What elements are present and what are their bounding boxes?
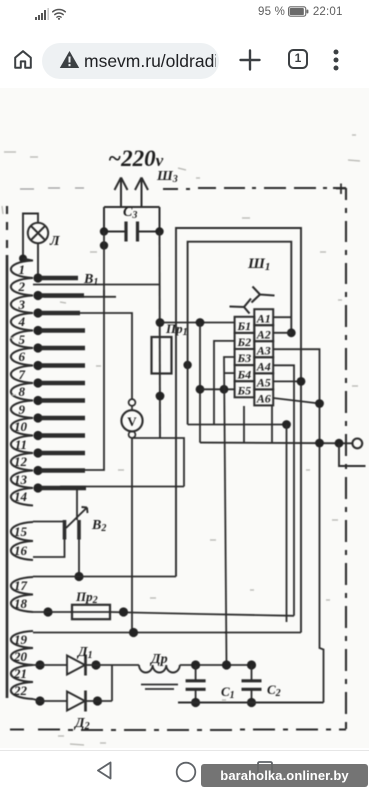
- wire tap13 drop to switch V2: [76, 487, 78, 521]
- voltmeter V top terminal: [129, 399, 136, 406]
- node C3 right: [155, 227, 163, 235]
- tap 13 terminal dot and lead: [33, 483, 42, 492]
- lamp L: [28, 223, 48, 243]
- node tap20: [35, 660, 44, 669]
- wire diode outputs join: [111, 665, 113, 701]
- svg-text:14: 14: [14, 489, 28, 504]
- transformer T winding loops 19-22: [11, 631, 33, 699]
- wire lamp bottom: [37, 243, 39, 277]
- svg-text:Д1: Д1: [76, 645, 93, 661]
- wire pin B1 to fuse line: [160, 322, 235, 324]
- svg-text:9: 9: [19, 402, 26, 417]
- wire voltmeter bottom junction: [132, 438, 160, 633]
- node winding top: [19, 255, 27, 263]
- svg-text:Б5: Б5: [236, 383, 251, 397]
- wire pin A1: [273, 316, 291, 318]
- wire voltmeter to tap13 line: [160, 438, 184, 487]
- wire lamp top bracket: [23, 214, 38, 259]
- switch V2 contacts: [63, 520, 67, 540]
- tap 12 terminal dot and lead: [33, 466, 42, 475]
- node voltmeter line to row19: [129, 628, 138, 637]
- svg-text:С2: С2: [267, 682, 281, 699]
- node fuse top: [156, 318, 165, 327]
- tap 2 terminal dot and lead: [33, 291, 42, 300]
- svg-text:Ш1: Ш1: [247, 256, 270, 273]
- wire bus W1 around connector: [176, 228, 301, 633]
- tap 5 terminal dot and lead: [33, 343, 42, 352]
- svg-text:4: 4: [18, 314, 26, 329]
- svg-text:~220v: ~220v: [108, 146, 164, 171]
- nav back triangle: [94, 760, 114, 781]
- node fuse Pr2 out: [119, 607, 128, 616]
- svg-text:1: 1: [19, 262, 26, 277]
- home icon: [13, 49, 33, 70]
- svg-text:8: 8: [19, 384, 26, 399]
- diode D1: [67, 656, 85, 675]
- warning triangle icon: [59, 50, 80, 69]
- switch V1 wire tap2 long: [33, 284, 160, 286]
- connector pin box А5: [254, 373, 273, 389]
- dash border corner mark: [336, 184, 346, 195]
- node tap18: [43, 607, 52, 616]
- svg-text:22: 22: [13, 683, 28, 698]
- wire pin A5 to bus W1: [273, 380, 301, 382]
- wire pin B3 down to rectifier rail: [224, 357, 235, 665]
- fuse Pr1: [152, 337, 172, 374]
- node tap22: [35, 696, 44, 705]
- wire tap19 row: [33, 632, 301, 634]
- node B5 junction: [196, 385, 205, 394]
- svg-text:А1: А1: [256, 311, 271, 325]
- node C1 top: [191, 660, 200, 669]
- wire pin A4 down to bus424: [273, 365, 294, 616]
- wire plus rail: [180, 664, 256, 666]
- signal bars icon: [35, 8, 50, 20]
- svg-text:А4: А4: [256, 359, 271, 373]
- node on W2 vertical: [183, 361, 191, 369]
- svg-text:5: 5: [19, 332, 26, 347]
- node diode D2 out: [93, 696, 102, 705]
- tap 9 terminal dot and lead: [33, 413, 42, 422]
- svg-text:6: 6: [19, 349, 26, 364]
- wire tap13 extension: [60, 486, 184, 488]
- wire pin B5: [200, 388, 235, 390]
- wire switch V2 right bottom: [78, 540, 80, 577]
- wire riser to fuse Pr2 row: [286, 425, 288, 623]
- node fuse bottom: [156, 392, 165, 401]
- node neutral: [100, 241, 108, 249]
- wifi icon: [52, 8, 67, 20]
- terminal antenna socket: [352, 439, 362, 449]
- capacitor C3: [104, 231, 160, 233]
- svg-text:17: 17: [14, 578, 28, 593]
- node B5 cross: [220, 385, 229, 394]
- svg-text:12: 12: [14, 454, 28, 469]
- wire tap17 bus: [33, 576, 176, 578]
- wire tap3 to voltmeter: [80, 313, 132, 399]
- wire tap22 to diode D2: [33, 699, 67, 701]
- wire ground rail: [178, 702, 324, 704]
- chassis dashed border bottom: [10, 728, 346, 731]
- connector pin box А6: [254, 389, 273, 405]
- svg-text:10: 10: [14, 419, 28, 434]
- browser toolbar: [0, 30, 369, 88]
- svg-text:Б3: Б3: [236, 351, 251, 365]
- tap 1 terminal dot and lead: [33, 273, 42, 282]
- connector pin box А4: [254, 357, 273, 373]
- svg-text:А6: А6: [256, 392, 271, 406]
- transformer T winding loops 15-16: [11, 522, 33, 560]
- node C2 top: [247, 660, 256, 669]
- connector pin box Б4: [235, 365, 255, 381]
- tap 6 terminal dot and lead: [33, 361, 42, 370]
- node A2 junction: [287, 328, 296, 337]
- tap 8 terminal dot and lead: [33, 396, 42, 405]
- fuse Pr2: [72, 605, 110, 619]
- node A6 junction: [315, 399, 324, 408]
- svg-text:3: 3: [18, 297, 26, 312]
- chassis dashed border left: [6, 206, 8, 248]
- node C1 bottom: [191, 698, 200, 707]
- tap 4 terminal dot and lead: [33, 326, 42, 335]
- bottom nav bar: [0, 750, 369, 801]
- tap 10 terminal dot and lead: [33, 431, 42, 440]
- status bar: [0, 0, 369, 30]
- node antenna bus A3 riser: [315, 439, 324, 448]
- switch V2 arm: [66, 507, 88, 528]
- transformer T winding loops 1-14: [11, 261, 33, 506]
- wire antenna bus: [200, 442, 352, 445]
- svg-text:16: 16: [14, 543, 28, 558]
- svg-text:Б4: Б4: [236, 367, 251, 381]
- svg-text:А5: А5: [256, 376, 271, 390]
- wire vertical B1-B5 to antenna bus: [199, 323, 201, 443]
- chassis dashed border right: [345, 188, 347, 729]
- transformer T winding loops 17-18: [11, 577, 33, 612]
- node B3 riser on rail: [222, 660, 231, 669]
- svg-text:Л: Л: [49, 234, 60, 249]
- wire neutral down to tap 12: [85, 232, 104, 471]
- svg-text:Б1: Б1: [236, 319, 251, 333]
- svg-text:19: 19: [14, 632, 28, 647]
- node on tap17 bus: [74, 572, 83, 581]
- svg-text:15: 15: [14, 524, 28, 539]
- tap 3 terminal dot and lead: [33, 308, 42, 317]
- tap 11 terminal dot and lead: [33, 448, 42, 457]
- wire to chassis stub: [339, 443, 366, 466]
- node A5 junction: [297, 377, 306, 386]
- wire tap15 to switch V2 left: [33, 521, 65, 523]
- plug Sh1 prong contacts: [252, 287, 275, 303]
- wire mains live down: [159, 232, 162, 438]
- connector pin box Б1: [235, 317, 255, 333]
- connector pin box А1: [254, 309, 273, 325]
- chassis dashed border top: [20, 188, 84, 189]
- svg-text:Др: Др: [149, 652, 168, 667]
- voltmeter V body: [121, 410, 142, 431]
- svg-text:11: 11: [15, 437, 27, 452]
- connector pin box А3: [254, 341, 273, 357]
- svg-text:Пр2: Пр2: [75, 589, 98, 606]
- svg-text:20: 20: [13, 649, 28, 664]
- wire bus W2 around connector: [188, 242, 292, 425]
- wire D1 out to choke: [86, 664, 140, 666]
- svg-text:С1: С1: [221, 684, 235, 701]
- svg-text:7: 7: [19, 367, 26, 382]
- node diode D1 out: [91, 660, 100, 669]
- svg-text:21: 21: [13, 666, 27, 681]
- svg-text:2: 2: [18, 279, 26, 294]
- wire D2 out: [86, 700, 113, 702]
- svg-text:В2: В2: [91, 518, 106, 534]
- svg-text:18: 18: [14, 596, 28, 611]
- svg-text:Д2: Д2: [73, 716, 90, 732]
- wire pin A6: [273, 398, 319, 404]
- node row19 to C1 riser: [225, 632, 227, 634]
- mains plug pin arrow right: [135, 178, 148, 208]
- node C2 bottom: [247, 698, 256, 707]
- wire pin A2: [273, 332, 291, 334]
- node antenna bus corner: [335, 439, 344, 448]
- plus icon: [239, 49, 261, 71]
- choke Dr: [139, 665, 180, 673]
- node C3 left: [100, 227, 108, 235]
- wire pin A3 down right: [273, 349, 323, 702]
- tab counter: [288, 49, 308, 69]
- kebab menu: [332, 49, 340, 71]
- connector pin box Б5: [235, 381, 255, 397]
- node bus424 to fuse2 riser: [282, 420, 291, 429]
- connector pin box Б3: [235, 349, 255, 365]
- node B1 junction: [196, 318, 205, 327]
- url pill: [42, 43, 219, 79]
- nav recents square: [256, 760, 274, 778]
- wire pin B2 down to bus424: [214, 341, 235, 425]
- wire tap20 to diode D1: [33, 664, 67, 666]
- watermark: [201, 764, 368, 787]
- svg-text:В1: В1: [83, 272, 98, 288]
- wire winding top end: [23, 259, 33, 261]
- svg-text:А3: А3: [256, 343, 271, 357]
- voltmeter V bottom terminal: [129, 431, 136, 438]
- svg-text:А2: А2: [256, 327, 271, 341]
- tap 7 terminal dot and lead: [33, 378, 42, 387]
- switch V1 wiper line with tick: [44, 290, 116, 298]
- mains plug pin arrow left: [115, 178, 128, 208]
- wire tap18 row: [33, 612, 294, 616]
- capacitor C2: [251, 665, 253, 703]
- svg-text:Б2: Б2: [236, 335, 251, 349]
- scan noise marks: [2, 135, 360, 745]
- connector pin box Б2: [235, 333, 255, 349]
- connector pin box А2: [254, 325, 273, 341]
- capacitor C1: [195, 665, 197, 703]
- wire switch V2 left bottom to tap16: [33, 540, 65, 558]
- wire plug bracket: [104, 207, 160, 232]
- wire B5 bottom hang: [243, 406, 245, 443]
- svg-text:Ш3: Ш3: [156, 169, 178, 185]
- diode D2: [67, 692, 85, 711]
- svg-text:13: 13: [14, 472, 28, 487]
- svg-text:V: V: [127, 414, 137, 429]
- wire A6 bottom hang: [271, 406, 273, 443]
- nav home circle: [175, 761, 197, 783]
- wire bus under connector: [188, 424, 287, 426]
- wire pin B4 down to bus424: [224, 372, 234, 374]
